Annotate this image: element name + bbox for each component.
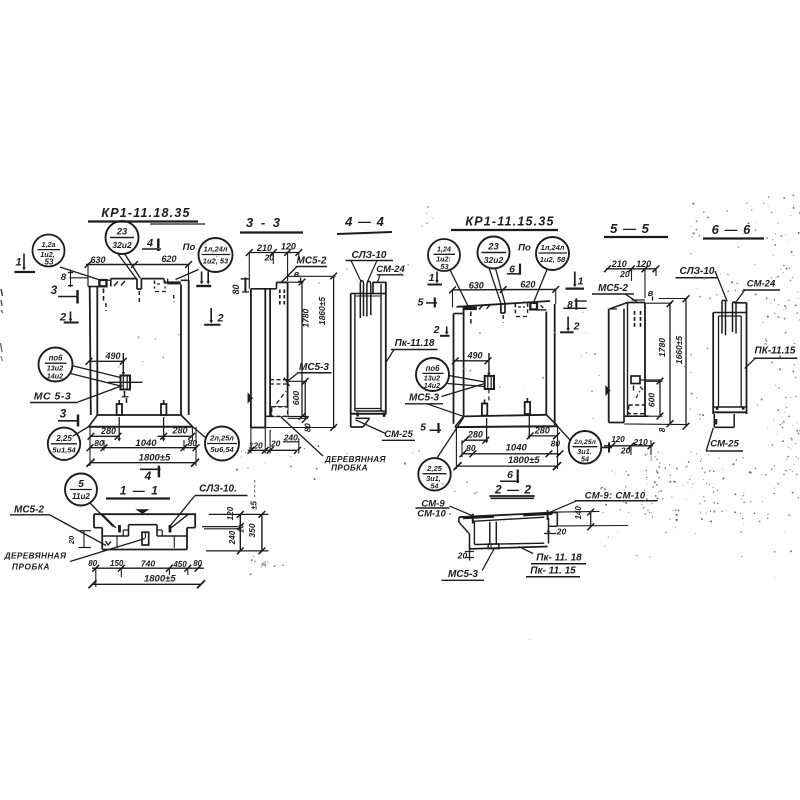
svg-text:СМ-25: СМ-25 bbox=[710, 439, 739, 450]
svg-text:23: 23 bbox=[487, 242, 499, 253]
svg-text:ПРОБКА: ПРОБКА bbox=[331, 464, 368, 473]
anchor dashes sec3-3 bbox=[279, 290, 281, 294]
section5-5 bottoms bbox=[624, 415, 649, 417]
leader Pk sec2-2 bbox=[519, 547, 533, 554]
svg-text:ПК-11.15: ПК-11.15 bbox=[755, 346, 796, 357]
wooden plug sec1-1 bbox=[142, 532, 149, 545]
svg-text:740: 740 bbox=[141, 559, 155, 569]
svg-text:МС 5-3: МС 5-3 bbox=[34, 391, 71, 403]
svg-text:МС5-2: МС5-2 bbox=[14, 504, 44, 515]
svg-text:1и2, 53: 1и2, 53 bbox=[203, 257, 229, 266]
bottom dim 1800+-5 sec1-1 bbox=[92, 583, 203, 585]
svg-text:20: 20 bbox=[239, 525, 246, 534]
dashed diag and plug sec5-5 bbox=[636, 391, 640, 398]
section4-4 box bbox=[350, 294, 352, 414]
callout 2,25/5i1,54 bbox=[48, 428, 80, 460]
svg-text:По: По bbox=[183, 242, 196, 253]
dim 1800+-5 right panel bbox=[457, 465, 559, 467]
panel2 left edge bbox=[453, 314, 455, 424]
svg-text:1860±5: 1860±5 bbox=[317, 297, 327, 326]
svg-text:53: 53 bbox=[45, 258, 54, 267]
section2-2 outline bbox=[459, 512, 557, 517]
callout 23/32i2 bbox=[106, 221, 139, 254]
dimension 630+620 top bbox=[86, 264, 190, 266]
svg-text:Д: Д bbox=[261, 561, 267, 568]
svg-text:1780: 1780 bbox=[300, 308, 310, 327]
dims 80 1040 80 right panel bbox=[462, 453, 561, 455]
svg-text:1,24: 1,24 bbox=[437, 244, 451, 253]
svg-text:4 — 4: 4 — 4 bbox=[344, 214, 385, 229]
callout 23/32i2 right bbox=[478, 237, 510, 269]
panel2 top edge sloped bbox=[457, 301, 551, 307]
svg-text:80: 80 bbox=[193, 559, 202, 568]
svg-text:3: 3 bbox=[60, 409, 67, 421]
black arrow sec5-5 bbox=[605, 385, 610, 396]
svg-text:53: 53 bbox=[440, 262, 449, 271]
dashed diagonal and plug sec3-3 bbox=[277, 391, 287, 404]
dim 490 panel1 bbox=[89, 360, 125, 362]
panel2 bottom bbox=[464, 415, 547, 417]
callout 1l,24l/1i2,53 bbox=[199, 238, 233, 272]
svg-text:МС5-3: МС5-3 bbox=[448, 569, 478, 580]
anchor ticks sec1-1 bbox=[118, 525, 121, 533]
svg-text:1780: 1780 bbox=[657, 338, 667, 357]
svg-text:280: 280 bbox=[100, 426, 116, 436]
section6-6 box bbox=[712, 313, 714, 415]
svg-text:2 — 2: 2 — 2 bbox=[494, 483, 532, 497]
section4-4 bottom bbox=[355, 408, 381, 410]
section1-1 corner diagonals bbox=[102, 514, 116, 528]
dims bottom right panel 280 bbox=[486, 418, 488, 441]
svg-text:СМ-9: СМ-10: СМ-9: СМ-10 bbox=[585, 490, 646, 501]
panel1 left edge bbox=[90, 287, 91, 416]
svg-text:4: 4 bbox=[144, 471, 152, 483]
svg-text:1л,24л: 1л,24л bbox=[541, 243, 565, 252]
svg-text::: : bbox=[276, 560, 278, 567]
svg-text:Пк- 11. 15: Пк- 11. 15 bbox=[530, 566, 576, 577]
svg-text:1и2, 58: 1и2, 58 bbox=[540, 255, 566, 264]
section3-3 flange bbox=[250, 289, 252, 428]
panel2 right notch block bold bbox=[530, 303, 537, 310]
svg-text:СЛЗ-10.: СЛЗ-10. bbox=[199, 484, 237, 495]
callout 2l,25l/3i1,54 right bbox=[569, 431, 602, 464]
callout 2l,25l/5i6,54 bbox=[205, 427, 239, 461]
svg-text:1660±5: 1660±5 bbox=[674, 336, 684, 365]
svg-text:80: 80 bbox=[551, 439, 561, 449]
svg-text:МС5-2: МС5-2 bbox=[598, 283, 628, 294]
svg-text:4: 4 bbox=[146, 238, 153, 250]
section4-4 foot bbox=[350, 414, 352, 427]
svg-text:240: 240 bbox=[228, 530, 237, 545]
svg-text:5: 5 bbox=[78, 479, 84, 490]
panel1 outline top edge bbox=[87, 278, 89, 287]
svg-text:5: 5 bbox=[420, 422, 426, 434]
svg-text:6: 6 bbox=[507, 469, 513, 481]
double arrow marker right of panel1 top bbox=[201, 272, 203, 283]
svg-text:20: 20 bbox=[556, 527, 567, 537]
panel1 top notch block left bbox=[99, 280, 106, 286]
svg-text:11и2: 11и2 bbox=[72, 492, 90, 501]
leader check mark bbox=[106, 541, 112, 545]
section6-6 foot bbox=[713, 414, 715, 427]
right dims sec3-3 1860+-5 bbox=[333, 276, 335, 428]
svg-text:1800±5: 1800±5 bbox=[139, 453, 171, 464]
svg-text:КР1-11.15.35: КР1-11.15.35 bbox=[465, 215, 554, 229]
svg-text:5и6,54: 5и6,54 bbox=[210, 445, 234, 454]
svg-text:СМ-10: СМ-10 bbox=[417, 508, 446, 519]
svg-text:120: 120 bbox=[226, 506, 235, 520]
dim 600 sec5-5 bbox=[659, 381, 661, 416]
anchor loops sec4-4 bbox=[360, 281, 363, 318]
MS5-3 part sec5-5 bbox=[631, 376, 640, 384]
panel1 bottom bbox=[97, 414, 181, 416]
svg-text:120: 120 bbox=[281, 242, 296, 252]
section5-5 body bbox=[608, 309, 610, 423]
svg-text:490: 490 bbox=[466, 351, 482, 361]
svg-text:СЛЗ-10: СЛЗ-10 bbox=[680, 266, 715, 277]
callout 1l,24l/1i2,58 right bbox=[536, 237, 569, 270]
svg-text:СМ-25: СМ-25 bbox=[384, 429, 413, 440]
svg-text:54: 54 bbox=[431, 481, 439, 490]
svg-text:КР1-11.18.35: КР1-11.18.35 bbox=[101, 206, 190, 220]
svg-text:5 — 5: 5 — 5 bbox=[610, 221, 650, 236]
svg-text:80: 80 bbox=[304, 423, 313, 432]
svg-text:80: 80 bbox=[94, 438, 104, 448]
svg-text:150: 150 bbox=[110, 559, 124, 568]
svg-text:80: 80 bbox=[231, 284, 241, 294]
section3-3 web bbox=[269, 289, 271, 417]
svg-text:600: 600 bbox=[647, 393, 657, 407]
svg-text:в: в bbox=[294, 269, 300, 279]
svg-text:80: 80 bbox=[466, 443, 476, 453]
svg-text:1: 1 bbox=[578, 276, 584, 288]
dim 490 right panel bbox=[454, 360, 489, 362]
svg-text:350: 350 bbox=[247, 523, 257, 537]
callout po6/13i2/14i2 left bbox=[39, 348, 73, 382]
leader from callout3 bbox=[176, 270, 199, 280]
leader derev probka sec1-1 bbox=[70, 539, 145, 562]
callout 1,2a/1i2,53 bbox=[33, 235, 65, 267]
svg-text:2,25: 2,25 bbox=[426, 464, 443, 473]
svg-text:8: 8 bbox=[658, 427, 667, 432]
svg-text:6 — 6: 6 — 6 bbox=[712, 222, 752, 237]
right dim stack sec1-1 bbox=[209, 513, 269, 515]
MS5-3 piece sec2-2 bbox=[488, 544, 499, 549]
svg-text:±5: ±5 bbox=[250, 501, 259, 510]
panel2 center slot bbox=[500, 304, 502, 314]
svg-text:120: 120 bbox=[611, 435, 625, 444]
svg-text:по6: по6 bbox=[49, 354, 64, 363]
right dims sec3-3 1780 bbox=[301, 282, 303, 417]
panel2 left ledge bar bold bbox=[463, 307, 477, 310]
svg-text:14и2: 14и2 bbox=[424, 381, 440, 390]
panel1 top small notch right bbox=[163, 279, 165, 283]
svg-text:СМ-24: СМ-24 bbox=[747, 279, 776, 290]
svg-text:210: 210 bbox=[611, 259, 627, 269]
svg-text:210: 210 bbox=[256, 243, 272, 253]
svg-text:1800±5: 1800±5 bbox=[144, 574, 176, 585]
svg-text:2л,25л: 2л,25л bbox=[573, 439, 596, 446]
svg-text:МС5-3: МС5-3 bbox=[409, 393, 439, 404]
scan noise speckles bbox=[691, 451, 692, 452]
svg-text:1800±5: 1800±5 bbox=[508, 455, 540, 466]
bottom dims sec3-3 bbox=[248, 449, 299, 451]
section1-1 outline bbox=[94, 513, 196, 515]
svg-text:20: 20 bbox=[67, 535, 76, 545]
leader MS5-3 sec2-2 bbox=[482, 548, 494, 571]
right dims sec5-5 bbox=[669, 304, 671, 424]
svg-text:2: 2 bbox=[433, 324, 440, 336]
embedded part MS5-3 right bbox=[485, 376, 494, 389]
svg-text:2: 2 bbox=[573, 321, 580, 333]
svg-text:1040: 1040 bbox=[135, 438, 157, 449]
panel1 lifting loop left bbox=[117, 404, 122, 415]
svg-text:5: 5 bbox=[418, 297, 424, 309]
section1-1 inner profile bbox=[102, 535, 128, 537]
svg-text:1 — 1: 1 — 1 bbox=[120, 484, 160, 498]
svg-text:5и1,54: 5и1,54 bbox=[52, 446, 76, 455]
svg-text:280: 280 bbox=[534, 425, 550, 435]
svg-text:450: 450 bbox=[172, 560, 187, 569]
svg-text:20: 20 bbox=[264, 253, 275, 263]
svg-text:1л,24л: 1л,24л bbox=[204, 245, 228, 254]
bottom dims sec1-1 row1 bbox=[92, 567, 204, 569]
level mark triangle bbox=[135, 509, 149, 514]
svg-text:СЛЗ-10: СЛЗ-10 bbox=[352, 250, 387, 261]
svg-text:280: 280 bbox=[467, 430, 483, 440]
svg-text:2: 2 bbox=[216, 313, 223, 325]
dim 630+620 right panel bbox=[452, 288, 556, 291]
embedded part MS5-3 panel1 bbox=[121, 376, 131, 390]
svg-text:по6: по6 bbox=[426, 364, 441, 373]
svg-text:1: 1 bbox=[15, 257, 21, 269]
panel2 lifting loops bbox=[482, 404, 487, 416]
svg-text:МС5-3: МС5-3 bbox=[299, 362, 329, 373]
svg-text:3: 3 bbox=[51, 285, 58, 297]
leaders po6 callout bbox=[72, 366, 121, 378]
anchor dashes sec5-5 bbox=[634, 311, 636, 315]
svg-text:630: 630 bbox=[90, 255, 105, 265]
svg-text:600: 600 bbox=[291, 391, 301, 405]
MS5-3 level dashes sec3-3 bbox=[270, 379, 288, 381]
svg-text:1040: 1040 bbox=[506, 442, 528, 453]
panel1 dashed anchors below top bbox=[103, 289, 105, 302]
svg-text:120: 120 bbox=[636, 259, 651, 269]
svg-text:140: 140 bbox=[574, 506, 583, 520]
svg-text:2л,25л: 2л,25л bbox=[209, 434, 234, 443]
svg-text:280: 280 bbox=[171, 426, 187, 436]
svg-text:1,2а: 1,2а bbox=[42, 240, 56, 249]
dim 1800+-5 panel1 bbox=[91, 462, 197, 464]
leaders from callout2 bbox=[118, 253, 137, 278]
svg-text:32и2: 32и2 bbox=[484, 255, 504, 265]
svg-text:ПРОБКА: ПРОБКА bbox=[12, 563, 50, 572]
svg-text:3 - 3: 3 - 3 bbox=[246, 215, 282, 230]
panel2 dashed marks bbox=[470, 312, 472, 327]
dim 280 right bottom panel1 bbox=[163, 417, 165, 439]
svg-text:20: 20 bbox=[270, 439, 281, 449]
svg-text:240: 240 bbox=[283, 432, 298, 442]
panel1 top right ledge bar bbox=[167, 281, 181, 284]
svg-text:54: 54 bbox=[581, 454, 589, 463]
anchor loops sec6-6 bbox=[722, 300, 726, 335]
svg-text:80: 80 bbox=[88, 559, 97, 568]
svg-text:Пк- 11. 18: Пк- 11. 18 bbox=[536, 553, 582, 564]
svg-text:20: 20 bbox=[619, 269, 630, 279]
svg-text:По: По bbox=[518, 243, 531, 254]
leader to derev probka sec3-3 bbox=[281, 417, 323, 456]
svg-text:14и2: 14и2 bbox=[47, 371, 63, 380]
callout 1,24/1i2,53 right bbox=[428, 239, 460, 271]
panel1 right edge bbox=[180, 284, 182, 415]
callout 2,25/3i1,54 right bbox=[418, 458, 450, 490]
dim 280 left bottom panel1 bbox=[118, 417, 120, 439]
panel2 right edge bbox=[545, 312, 547, 415]
svg-text:ДЕРЕВЯННАЯ: ДЕРЕВЯННАЯ bbox=[4, 552, 67, 561]
leader from callout1 bbox=[60, 267, 100, 280]
callout 5/11i2 bbox=[65, 474, 97, 506]
callout po6 right bbox=[416, 358, 449, 391]
svg-text:620: 620 bbox=[520, 280, 535, 290]
svg-text:8: 8 bbox=[567, 300, 573, 311]
svg-text:8: 8 bbox=[61, 272, 67, 283]
svg-text:1: 1 bbox=[429, 272, 435, 284]
dims 80 1040 80 panel1 bbox=[90, 447, 196, 449]
svg-text:23: 23 bbox=[116, 227, 128, 238]
svg-text:МС5-2: МС5-2 bbox=[296, 256, 326, 267]
black arrow on flange sec3-3 bbox=[248, 392, 253, 403]
svg-text:32и2: 32и2 bbox=[112, 240, 132, 250]
svg-text:2,25: 2,25 bbox=[55, 434, 72, 443]
svg-text:Пк-11.18: Пк-11.18 bbox=[395, 338, 435, 349]
svg-text:630: 630 bbox=[469, 280, 484, 290]
panel1 top center slot bbox=[136, 279, 138, 290]
left margin marks bbox=[1, 289, 3, 296]
panel1 lifting loop right bbox=[161, 404, 166, 415]
